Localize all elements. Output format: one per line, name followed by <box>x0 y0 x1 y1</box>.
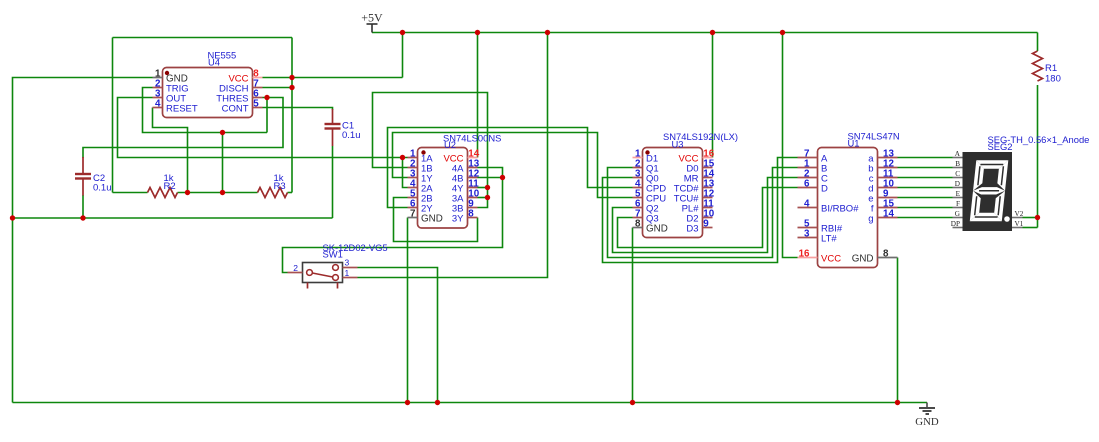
svg-text:2: 2 <box>293 263 298 273</box>
wire TRIG node to R2/R3 node <box>222 133 224 193</box>
junction U1 GND node <box>895 400 900 405</box>
junction DISCH node <box>289 85 294 90</box>
wire C2 bottom lead wire <box>82 195 84 218</box>
wire U1 g to SEG2 <box>898 217 953 219</box>
SEG2 pin E <box>953 190 963 198</box>
wire R2 left lead wire <box>113 192 148 194</box>
ground symbol GND <box>915 403 939 429</box>
svg-text:RESET: RESET <box>166 103 198 114</box>
svg-text:8: 8 <box>468 209 474 220</box>
U1 pin 10 (d) <box>868 179 897 195</box>
U1 pin 11 (c) <box>869 169 898 185</box>
capacitor C2 <box>75 157 91 196</box>
U1 pin 6 (D) <box>798 179 829 195</box>
U2 pin 14 (VCC) <box>443 149 479 165</box>
SEG2 digit segments <box>970 160 1009 221</box>
junction C2 bottom node <box>80 215 85 220</box>
junction C2 bus node <box>10 215 15 220</box>
U3 pin 12 (TCU#) <box>674 189 715 205</box>
svg-text:V2: V2 <box>1015 210 1024 218</box>
wire C1/C2 ground sub-bus <box>13 217 333 219</box>
SEG2 pin F <box>953 200 963 208</box>
wire THRES to TRIG vertical <box>266 98 268 133</box>
U3 pin 10 (D2) <box>686 209 714 225</box>
SW1 pin 3 <box>343 258 358 268</box>
junction +5V/U1 VCC <box>780 30 785 35</box>
wire R1 bottom lead to SEG2 V1 <box>1037 85 1039 228</box>
wire U2 1A to 2A <box>403 158 408 188</box>
wire U2 4B tap <box>478 177 503 179</box>
wire SEG2 V1 wire <box>1023 227 1038 229</box>
U3 pin 7 (Q3) <box>633 209 659 225</box>
wire U4 pin7 DISCH wire <box>263 87 293 89</box>
U1 pin 5 (RBI#) <box>798 219 843 235</box>
U2 pin 10 (3A) <box>452 189 480 205</box>
wire U3 Q2 to U1 C <box>613 178 798 253</box>
wire +5V top rail <box>372 32 1038 34</box>
svg-text:U2: U2 <box>444 139 456 150</box>
U2 pin 12 (4B) <box>452 169 480 185</box>
svg-text:G: G <box>955 210 960 218</box>
U2 pin 2 (1B) <box>408 159 433 175</box>
SW1 pin 1 <box>343 268 358 278</box>
switch SW1 SK-12D02-VG5 <box>303 263 343 289</box>
SEG2 pin G <box>953 210 963 218</box>
SN74LS47N (U1) body <box>818 148 878 268</box>
svg-text:F: F <box>956 200 960 208</box>
svg-text:0.1u: 0.1u <box>342 130 361 141</box>
wire U1 c to SEG2 <box>898 177 953 179</box>
U4 pin 3 (OUT) <box>153 89 187 105</box>
U1 pin 15 (f) <box>871 199 898 215</box>
svg-text:GND: GND <box>646 223 668 234</box>
wire U1 a to SEG2 <box>898 157 953 159</box>
wire U2 4Y tap <box>478 187 488 189</box>
svg-text:B: B <box>955 160 960 168</box>
junction 4A/4B node <box>500 175 505 180</box>
capacitor C1 <box>325 109 341 146</box>
wire C1 bottom lead wire <box>332 146 334 218</box>
wire U3 GND drop <box>632 228 634 403</box>
U3 pin 4 (CPD) <box>633 179 667 195</box>
U3 pin 15 (D0) <box>686 159 714 175</box>
SN74LS192N(LX) (U3) body <box>643 148 703 238</box>
U1 pin 12 (b) <box>868 159 897 175</box>
wire U1 GND drop <box>897 258 899 403</box>
junction 4Y node <box>485 185 490 190</box>
U1 pin 4 (BI/RBO#) <box>798 199 860 215</box>
U2 pin 1 (1A) <box>408 149 434 165</box>
junction +5V/U2 VCC <box>475 30 480 35</box>
svg-text:DP: DP <box>951 220 960 228</box>
SEG2 pin A <box>953 150 963 158</box>
SEG2 pin D <box>953 180 963 188</box>
U4 pin 4 (RESET) <box>153 99 198 115</box>
svg-text:4: 4 <box>155 99 161 110</box>
U2 pin 11 (4Y) <box>452 179 479 195</box>
U1 pin 1 (B) <box>798 159 828 175</box>
U3 pin 9 (D3) <box>686 219 712 235</box>
wire U4 RESET to R2 right node <box>153 108 188 193</box>
svg-text:D: D <box>955 180 960 188</box>
U2 pin 9 (3B) <box>452 199 478 215</box>
wire R1 top lead wire <box>1037 33 1039 52</box>
junction TRIG node <box>220 130 225 135</box>
U1 pin 2 (C) <box>798 169 829 185</box>
svg-text:g: g <box>868 213 873 224</box>
svg-text:GND: GND <box>852 253 874 264</box>
U3 pin 16 (VCC) <box>678 149 714 165</box>
U1 pin 14 (g) <box>868 209 897 225</box>
wire U2 2Y to U3 CPD <box>388 128 633 208</box>
wire +5V drop to U3 VCC pin16 <box>712 33 714 158</box>
wire SW1 pin3 to ground bus <box>358 268 438 403</box>
svg-text:VCC: VCC <box>821 253 841 264</box>
U3 origin marker <box>645 150 649 154</box>
svg-text:R3: R3 <box>274 181 286 192</box>
svg-text:A: A <box>955 150 961 158</box>
U2 pin 5 (2B) <box>408 189 433 205</box>
svg-text:3: 3 <box>804 229 810 240</box>
resistor R2 <box>148 188 178 198</box>
wire U2 1B to 3B loop <box>373 93 488 208</box>
svg-text:16: 16 <box>799 249 810 260</box>
SEG2 pin V2 <box>1012 210 1024 218</box>
wire U2 4A/4B to SW1 pin2 <box>283 168 503 273</box>
wire R2-R3 link <box>178 192 258 194</box>
svg-text:180: 180 <box>1045 74 1061 85</box>
U3 pin 5 (CPU) <box>633 189 667 205</box>
svg-text:+5V: +5V <box>361 11 383 25</box>
U2 pin 8 (3Y) <box>452 209 478 225</box>
U1 pin 13 (a) <box>868 149 897 165</box>
svg-text:8: 8 <box>883 249 889 260</box>
U2 pin 6 (2Y) <box>408 199 434 215</box>
U4 pin 6 (THRES) <box>216 89 262 105</box>
junction VCC8 node <box>289 75 294 80</box>
wire +5V left rail <box>113 37 293 39</box>
junction +5V/U4 VCC <box>400 30 405 35</box>
wire U3 Q1 to U1 B <box>608 168 798 258</box>
resistor R3 <box>258 188 288 198</box>
svg-text:U1: U1 <box>848 137 860 148</box>
wire U2 1Y to U3 CPU <box>393 133 633 198</box>
U2 origin marker <box>421 150 425 154</box>
wire U1 e to SEG2 <box>898 197 953 199</box>
junction R2 right node <box>185 190 190 195</box>
svg-text:SEG2: SEG2 <box>988 141 1013 152</box>
svg-text:U3: U3 <box>672 138 684 149</box>
U2 pin 3 (1Y) <box>408 169 434 185</box>
wire U2 2B to 3Y <box>394 198 478 242</box>
U3 pin 2 (Q1) <box>633 159 659 175</box>
+5V power symbol <box>361 11 383 33</box>
U3 pin 8 (GND) <box>633 219 668 235</box>
svg-text:GND: GND <box>915 416 939 428</box>
U4 pin 2 (TRIG) <box>153 79 189 95</box>
svg-text:1: 1 <box>345 268 350 278</box>
U4 pin 5 (CONT) <box>222 99 263 115</box>
junction U3 GND node <box>630 400 635 405</box>
wire +5V drop to SW1 pin1 <box>358 33 548 278</box>
junction V2 node <box>1035 215 1040 220</box>
U3 pin 6 (Q2) <box>633 199 659 215</box>
U4 origin marker <box>165 71 169 75</box>
svg-text:V1: V1 <box>1015 220 1024 228</box>
wire U3 Q3 to U1 D <box>618 188 798 248</box>
NE555 (U4) body <box>163 68 253 118</box>
U3 pin 14 (MR) <box>684 169 715 185</box>
U1 pin 16 (VCC) <box>798 249 842 265</box>
svg-text:9: 9 <box>703 219 709 230</box>
junction SW1 GND node <box>435 400 440 405</box>
wire U2 3A tap <box>478 197 488 199</box>
junction +5V/SW1 <box>545 30 550 35</box>
svg-text:0.1u: 0.1u <box>93 183 112 194</box>
U4 pin 7 (DISCH) <box>219 79 263 95</box>
wire +5V drop to U1 VCC pin16 <box>783 33 798 258</box>
wire U2 GND drop <box>407 218 409 403</box>
wire +5V drop to U2 VCC pin14 <box>477 33 479 158</box>
svg-text:6: 6 <box>804 179 810 190</box>
SN74LS00NS (U2) body <box>418 148 468 229</box>
SEG2 pin V1 <box>1012 220 1024 228</box>
wire U1 b to SEG2 <box>898 167 953 169</box>
7-segment display SEG2 body <box>963 152 1013 231</box>
svg-text:SW1: SW1 <box>323 249 343 260</box>
U4 pin 1 (GND) <box>153 69 188 85</box>
U1 pin 9 (e) <box>868 189 897 205</box>
junction +5V/U3 VCC <box>710 30 715 35</box>
wire +5V to R2 left <box>112 38 114 193</box>
wire U4 pin8 VCC wire <box>263 77 403 79</box>
wire +5V drop to U4 VCC <box>402 33 404 78</box>
svg-text:D3: D3 <box>686 223 698 234</box>
wire U3 Q0 to U1 A <box>603 158 798 263</box>
SEG2 pin DP <box>951 220 963 228</box>
wire U4 TRIG link <box>143 88 268 133</box>
U3 pin 11 (PL#) <box>682 199 715 215</box>
wire U4 CONT to C1 top <box>263 108 333 111</box>
svg-text:5: 5 <box>253 99 259 110</box>
svg-text:C: C <box>955 170 960 178</box>
svg-text:E: E <box>956 190 961 198</box>
svg-text:R1: R1 <box>1045 63 1057 74</box>
svg-text:3: 3 <box>345 258 350 268</box>
svg-text:7: 7 <box>410 209 416 220</box>
U1 pin 8 (GND) <box>852 249 898 265</box>
svg-text:D: D <box>821 183 828 194</box>
svg-text:3Y: 3Y <box>452 213 464 224</box>
SW1 pin 2 <box>288 263 303 273</box>
wire U1 d to SEG2 <box>898 187 953 189</box>
svg-text:R2: R2 <box>164 181 176 192</box>
U3 pin 1 (D1) <box>633 149 659 165</box>
junction THRES node <box>264 95 269 100</box>
wire U4 GND pin1 to ground bus <box>13 78 153 403</box>
wire ground bus <box>13 402 928 404</box>
svg-text:LT#: LT# <box>821 233 837 244</box>
SEG2 pin B <box>953 160 963 168</box>
svg-text:8: 8 <box>635 219 641 230</box>
svg-text:BI/RBO#: BI/RBO# <box>821 203 859 214</box>
svg-text:U4: U4 <box>208 57 220 68</box>
U2 pin 13 (4A) <box>452 159 480 175</box>
wire R3 right lead wire <box>288 192 293 194</box>
U2 pin 7 (GND) <box>408 209 443 225</box>
SEG2 pin C <box>953 170 963 178</box>
U1 pin 7 (A) <box>798 149 829 165</box>
wire U4 THRES to C2 top <box>83 98 283 159</box>
junction R2/R3 node <box>220 190 225 195</box>
wire U1 f to SEG2 <box>898 207 953 209</box>
SEG2 decimal point <box>1004 216 1010 222</box>
wire SEG2 V2 wire <box>1023 217 1038 219</box>
U1 pin 3 (LT#) <box>798 229 838 245</box>
svg-text:4: 4 <box>804 199 810 210</box>
resistor R1 <box>1033 51 1043 81</box>
junction 3A node <box>485 195 490 200</box>
wire U4 OUT to U2 1A <box>118 98 408 158</box>
U3 pin 3 (Q0) <box>633 169 659 185</box>
svg-text:GND: GND <box>421 213 443 224</box>
svg-text:CONT: CONT <box>222 103 249 114</box>
U3 pin 13 (TCD#) <box>674 179 715 195</box>
wire +5V/DISCH vertical to R3 right <box>291 38 293 193</box>
U4 pin 8 (VCC) <box>228 69 262 85</box>
U2 pin 4 (2A) <box>408 179 434 195</box>
svg-text:14: 14 <box>883 209 894 220</box>
junction U2 GND node <box>405 400 410 405</box>
junction OUT/1A node <box>400 155 405 160</box>
